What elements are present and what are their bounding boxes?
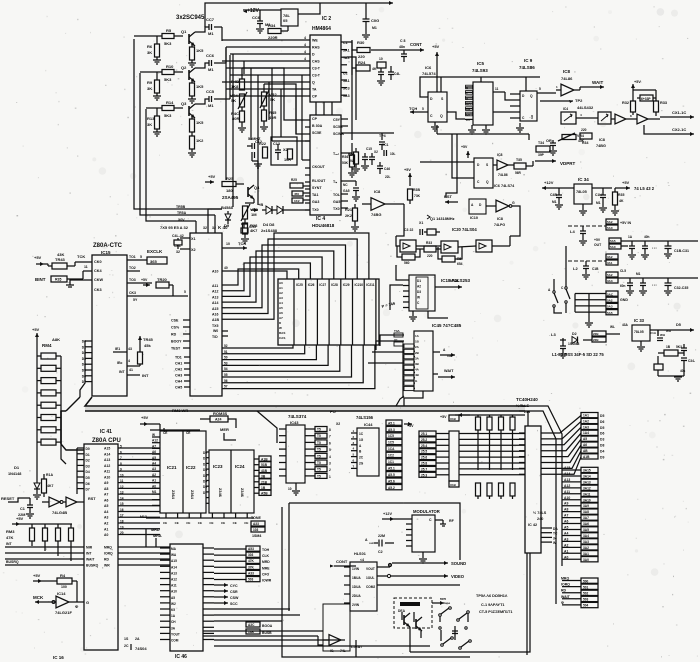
svg-text:43K: 43K bbox=[57, 252, 64, 257]
svg-text:A6: A6 bbox=[564, 520, 568, 524]
svg-text:IC15: IC15 bbox=[101, 250, 111, 255]
svg-text:Z80A CPU: Z80A CPU bbox=[92, 438, 121, 444]
svg-text:DV: DV bbox=[530, 115, 534, 119]
svg-text:R34: R34 bbox=[582, 141, 588, 145]
svg-text:IEo: IEo bbox=[117, 361, 122, 365]
IC IC41 Z80A CPU box bbox=[84, 444, 118, 650]
svg-text:T5: T5 bbox=[317, 428, 321, 432]
svg-text:TR43: TR43 bbox=[55, 257, 66, 262]
svg-text:D5: D5 bbox=[676, 323, 681, 327]
svg-text:5K3: 5K3 bbox=[164, 41, 172, 46]
svg-text:13: 13 bbox=[120, 491, 124, 495]
svg-text:IC8: IC8 bbox=[599, 138, 605, 142]
svg-text:1K2: 1K2 bbox=[196, 138, 204, 143]
svg-text:A11: A11 bbox=[564, 490, 570, 494]
label IC16 bbox=[53, 655, 64, 660]
svg-text:VOUT: VOUT bbox=[366, 567, 375, 571]
svg-text:VDPRT: VDPRT bbox=[560, 161, 576, 166]
svg-text:A5: A5 bbox=[583, 437, 587, 441]
svg-text:51B: 51B bbox=[261, 463, 268, 467]
svg-text:C1: C1 bbox=[20, 507, 25, 511]
svg-text:3K: 3K bbox=[147, 86, 152, 91]
IC40 left mid pins bbox=[171, 319, 190, 351]
svg-text:CX2-1C: CX2-1C bbox=[672, 127, 686, 132]
svg-text:+B: +B bbox=[258, 202, 263, 207]
capacitor C4 bbox=[206, 89, 215, 108]
resistor ROM3S A24 bbox=[172, 408, 236, 428]
svg-text:IC23: IC23 bbox=[213, 464, 223, 469]
svg-text:74LPG: 74LPG bbox=[494, 223, 505, 227]
svg-text:TX0: TX0 bbox=[312, 208, 319, 212]
label IC18 74LS253 bbox=[441, 278, 471, 283]
wire +5V tape bbox=[432, 597, 446, 605]
svg-text:Tₒᵤₜ: Tₒᵤₜ bbox=[333, 152, 339, 156]
trimmer VR3 1M bbox=[241, 204, 259, 221]
vertical mesh wires to IC4 bbox=[269, 68, 310, 160]
svg-text:CP: CP bbox=[312, 95, 318, 99]
resistor R34 top bbox=[268, 23, 288, 40]
IC18 right pins bbox=[435, 286, 448, 288]
wire RF bbox=[435, 519, 455, 526]
inverter IC14c MCK bbox=[33, 595, 75, 615]
RAM chip labels bbox=[296, 283, 375, 287]
svg-text:COM2: COM2 bbox=[366, 585, 375, 589]
CTC IEO pin bbox=[117, 359, 133, 366]
svg-text:G: G bbox=[512, 201, 515, 205]
svg-text:22M: 22M bbox=[378, 534, 385, 538]
svg-text:TA: TA bbox=[312, 88, 317, 92]
svg-text:3A11: 3A11 bbox=[583, 492, 591, 496]
svg-text:51: 51 bbox=[224, 350, 228, 354]
svg-text:C4B: C4B bbox=[550, 193, 557, 197]
svg-text:A33: A33 bbox=[248, 571, 254, 575]
capacitor C4 cluster bbox=[377, 57, 400, 85]
dashed line L4 bbox=[568, 225, 606, 227]
wire +5V right arrow bbox=[615, 180, 655, 191]
CTC right pin CK3 wire bbox=[127, 290, 188, 302]
connector col A boxes bbox=[562, 467, 598, 562]
svg-text:WAIT: WAIT bbox=[86, 557, 95, 561]
bus tap diagonal to ROM bbox=[257, 411, 277, 443]
svg-text:A14: A14 bbox=[104, 452, 110, 456]
resistor R10 bbox=[162, 64, 183, 82]
svg-text:2: 2 bbox=[329, 468, 331, 472]
svg-text:C1: C1 bbox=[466, 118, 470, 122]
modulator pins bbox=[406, 524, 412, 546]
svg-text:A2: A2 bbox=[104, 522, 108, 526]
svg-text:A3: A3 bbox=[279, 296, 283, 300]
svg-text:+5V: +5V bbox=[407, 424, 414, 428]
svg-text:AB: AB bbox=[583, 449, 588, 453]
capacitor C06 bbox=[362, 3, 379, 39]
svg-text:BOOY: BOOY bbox=[171, 340, 182, 344]
svg-text:CSR: CSR bbox=[230, 590, 238, 594]
label B4588 bbox=[221, 205, 234, 210]
svg-text:CE: CE bbox=[209, 521, 213, 525]
svg-text:TR5A: TR5A bbox=[177, 211, 187, 215]
svg-text:R9: R9 bbox=[147, 80, 153, 85]
svg-text:TR20: TR20 bbox=[157, 277, 168, 282]
svg-text:7X5 95 E5 A 32: 7X5 95 E5 A 32 bbox=[160, 225, 189, 230]
svg-text:4: 4 bbox=[304, 36, 306, 40]
svg-text:12: 12 bbox=[120, 485, 124, 489]
connector pair 3 bbox=[606, 254, 618, 265]
svg-text:1A: 1A bbox=[171, 614, 176, 618]
resistor R9 emitter bbox=[190, 80, 205, 96]
svg-text:R32: R32 bbox=[622, 101, 629, 105]
svg-text:A15: A15 bbox=[104, 447, 110, 451]
svg-text:L3: L3 bbox=[551, 332, 556, 337]
svg-text:1N4148: 1N4148 bbox=[8, 472, 21, 476]
resistor R11 emitter bbox=[190, 116, 205, 132]
svg-text:L4: L4 bbox=[570, 229, 575, 234]
svg-text:+5V: +5V bbox=[141, 278, 148, 282]
resistor R24 4K bbox=[352, 50, 377, 75]
inductor L3 row bbox=[551, 332, 567, 358]
svg-text:+5V: +5V bbox=[16, 516, 24, 521]
resistor R14 bbox=[162, 100, 183, 118]
cap row 2 bbox=[620, 272, 647, 295]
svg-text:180: 180 bbox=[226, 188, 233, 193]
svg-text:D3: D3 bbox=[86, 464, 90, 468]
svg-text:X2: X2 bbox=[374, 150, 378, 154]
svg-text:A1: A1 bbox=[564, 549, 568, 553]
svg-text:3A14: 3A14 bbox=[583, 474, 591, 478]
svg-text:T/D: T/D bbox=[212, 335, 218, 339]
connector quad GND bbox=[606, 291, 628, 315]
ground under R28 bbox=[241, 234, 249, 243]
wire Q4 collector bbox=[245, 199, 254, 203]
svg-text:504: 504 bbox=[583, 604, 589, 608]
svg-text:IC210: IC210 bbox=[355, 283, 364, 287]
svg-text:TD1: TD1 bbox=[175, 356, 182, 360]
svg-text:WAIT: WAIT bbox=[592, 80, 603, 85]
svg-text:41B: 41B bbox=[261, 469, 268, 473]
svg-text:A5: A5 bbox=[279, 306, 283, 310]
svg-text:74L86: 74L86 bbox=[498, 173, 508, 177]
svg-text:A33: A33 bbox=[253, 522, 259, 526]
svg-text:C0: C0 bbox=[466, 113, 470, 117]
svg-text:5A2: 5A2 bbox=[607, 273, 613, 277]
svg-text:VIDEO: VIDEO bbox=[451, 574, 465, 579]
wire top rail to regulator bbox=[298, 3, 320, 14]
svg-text:+5V IN: +5V IN bbox=[620, 221, 631, 225]
svg-text:BOOA: BOOA bbox=[262, 624, 273, 628]
CTC right pin TO3 R20b bbox=[127, 278, 152, 287]
svg-text:A13: A13 bbox=[212, 295, 218, 299]
svg-text:3A5: 3A5 bbox=[583, 528, 589, 532]
svg-text:3A8: 3A8 bbox=[583, 510, 589, 514]
wire left loop verticals (video RGB returns) bbox=[134, 39, 222, 221]
svg-text:EXCLK: EXCLK bbox=[147, 249, 163, 254]
bottom wires long bbox=[203, 631, 323, 645]
wire sound route long bbox=[377, 584, 460, 586]
svg-text:R34: R34 bbox=[268, 23, 276, 28]
svg-text:CC6: CC6 bbox=[206, 53, 215, 58]
svg-text:48n: 48n bbox=[399, 45, 405, 49]
svg-text:25.1: 25.1 bbox=[421, 432, 427, 436]
svg-text:GA3: GA3 bbox=[312, 200, 319, 204]
svg-text:3A10: 3A10 bbox=[583, 498, 591, 502]
tape caps bbox=[441, 626, 458, 641]
svg-text:K 40: K 40 bbox=[218, 225, 228, 230]
svg-text:D5: D5 bbox=[86, 476, 90, 480]
svg-text:+5V: +5V bbox=[634, 80, 641, 84]
svg-text:A2: A2 bbox=[417, 285, 421, 289]
cap row 2 dots bbox=[652, 278, 688, 295]
svg-text:74LS156: 74LS156 bbox=[356, 415, 374, 420]
svg-text:M1: M1 bbox=[552, 200, 557, 204]
svg-text:A6: A6 bbox=[583, 443, 587, 447]
svg-text:+12V: +12V bbox=[247, 8, 259, 14]
wire loop verticals vdprt bbox=[446, 134, 474, 198]
svg-text:25.6: 25.6 bbox=[421, 456, 427, 460]
svg-text:2346: 2346 bbox=[218, 488, 223, 498]
label HLS01 bbox=[354, 552, 366, 562]
label IC6 74LS74b bbox=[494, 184, 515, 188]
svg-text:4K: 4K bbox=[619, 199, 624, 203]
svg-text:M1: M1 bbox=[208, 103, 214, 108]
svg-text:74S04: 74S04 bbox=[135, 646, 147, 651]
svg-text:1S: 1S bbox=[124, 637, 129, 641]
wires trimmers to IC4 bbox=[242, 68, 305, 134]
IC40 X2 pin bbox=[174, 244, 196, 254]
svg-text:502: 502 bbox=[583, 592, 589, 596]
resistor R5 bbox=[162, 28, 183, 46]
ground under Q3 emitter bbox=[188, 153, 196, 157]
svg-text:TR5B: TR5B bbox=[176, 205, 186, 209]
svg-text:GND: GND bbox=[620, 298, 628, 302]
svg-text:6+33P: 6+33P bbox=[641, 97, 651, 101]
svg-text:5K: 5K bbox=[231, 98, 236, 103]
bus right end bends bbox=[519, 406, 562, 604]
svg-text:A24: A24 bbox=[215, 418, 221, 422]
svg-text:CC7: CC7 bbox=[206, 17, 215, 22]
svg-text:MA: MA bbox=[171, 547, 177, 551]
svg-text:T5: T5 bbox=[317, 454, 321, 458]
svg-text:47K: 47K bbox=[248, 559, 255, 563]
svg-text:INT: INT bbox=[119, 370, 126, 374]
CPU control pins right bbox=[104, 545, 170, 567]
svg-text:22L: 22L bbox=[385, 175, 391, 179]
svg-text:R1A: R1A bbox=[46, 473, 53, 477]
wire +12V rail bbox=[243, 9, 281, 11]
label IC23 bbox=[213, 464, 223, 498]
sound amp pins left bbox=[344, 567, 361, 607]
svg-text:WH: WH bbox=[660, 333, 665, 337]
svg-text:5A3: 5A3 bbox=[343, 94, 350, 98]
svg-text:78L05: 78L05 bbox=[634, 330, 644, 334]
svg-text:1A3: 1A3 bbox=[583, 425, 589, 429]
svg-text:CSE: CSE bbox=[171, 319, 179, 323]
svg-text:C1: C1 bbox=[343, 41, 348, 45]
svg-text:560: 560 bbox=[404, 261, 410, 265]
IC IC42 box bbox=[525, 426, 541, 553]
svg-text:CH: CH bbox=[171, 620, 176, 624]
buffer IC8 mid2 bbox=[486, 200, 515, 227]
svg-text:out: out bbox=[447, 354, 452, 358]
connector boxes right of IC46 bbox=[246, 546, 260, 582]
svg-text:450: 450 bbox=[294, 192, 299, 196]
wire +5V cx bbox=[631, 80, 656, 96]
svg-text:C32-C35: C32-C35 bbox=[674, 286, 688, 290]
svg-text:25.5: 25.5 bbox=[421, 450, 427, 454]
wires TR5B column bbox=[176, 205, 187, 222]
5VOUT rail bbox=[621, 241, 698, 246]
capacitor C15 bbox=[275, 144, 281, 160]
svg-text:A7: A7 bbox=[152, 444, 156, 448]
svg-text:MRD: MRD bbox=[151, 528, 160, 532]
svg-text:5: 5 bbox=[539, 87, 541, 91]
svg-text:CKW: CKW bbox=[94, 278, 103, 282]
transistor Q3 bbox=[181, 101, 195, 118]
svg-text:MRE: MRE bbox=[262, 566, 270, 570]
svg-text:D1: D1 bbox=[417, 279, 421, 283]
svg-text:R3B: R3B bbox=[413, 188, 420, 192]
svg-text:100: 100 bbox=[61, 585, 67, 589]
IC IC10 box mid bbox=[469, 199, 486, 220]
svg-text:A9: A9 bbox=[104, 481, 108, 485]
svg-text:C0G: C0G bbox=[371, 18, 379, 23]
label RESET bbox=[1, 496, 15, 501]
svg-text:CE: CE bbox=[244, 521, 248, 525]
crystal X1 sym bbox=[420, 229, 440, 235]
svg-text:40R: 40R bbox=[269, 115, 276, 120]
RAM first chip pin labels bbox=[279, 281, 285, 340]
svg-text:IC28: IC28 bbox=[331, 283, 338, 287]
wire Q1 top rail bbox=[205, 1, 393, 27]
connector col D labels bbox=[600, 414, 604, 459]
IC46 long wires right bbox=[214, 609, 430, 646]
svg-text:5A0: 5A0 bbox=[607, 226, 613, 230]
svg-text:L2: L2 bbox=[573, 266, 578, 271]
svg-text:240: 240 bbox=[537, 517, 543, 521]
svg-text:5C3: 5C3 bbox=[343, 87, 350, 91]
osc caps gnd bbox=[0, 0, 1, 1]
svg-text:10: 10 bbox=[379, 57, 383, 61]
label 5xMHZ bbox=[248, 137, 261, 141]
svg-text:D7: D7 bbox=[86, 488, 90, 492]
svg-text:5A3: 5A3 bbox=[607, 305, 613, 309]
svg-text:220: 220 bbox=[581, 128, 587, 132]
connector col D boxes bbox=[581, 413, 598, 460]
wire +5V rail RM4 bbox=[32, 327, 40, 478]
svg-text:TA1: TA1 bbox=[312, 193, 319, 197]
svg-text:NMI: NMI bbox=[86, 545, 92, 549]
wire video route bbox=[0, 0, 1, 1]
svg-text:A12: A12 bbox=[152, 439, 158, 443]
wires pack to resistors bbox=[459, 434, 525, 475]
svg-text:47K: 47K bbox=[6, 535, 13, 540]
svg-text:20: 20 bbox=[120, 531, 124, 535]
wire osc loop bbox=[396, 204, 520, 236]
svg-text:CAS: CAS bbox=[312, 60, 320, 64]
boxes TONE bbox=[251, 516, 265, 538]
svg-text:A4: A4 bbox=[564, 531, 568, 535]
svg-text:1VIN: 1VIN bbox=[352, 567, 360, 571]
svg-text:A2: A2 bbox=[279, 291, 283, 295]
svg-text:BUSRQ: BUSRQ bbox=[86, 563, 99, 567]
resistor R4 100 bbox=[33, 573, 77, 602]
diode D1 bbox=[8, 465, 41, 499]
svg-text:INT: INT bbox=[142, 373, 149, 378]
label IC45 bbox=[432, 323, 462, 328]
svg-text:A16: A16 bbox=[212, 313, 218, 317]
capacitor C2 bbox=[378, 534, 394, 554]
svg-text:3A13: 3A13 bbox=[583, 480, 591, 484]
label IC5 bbox=[477, 61, 485, 66]
svg-text:R5: R5 bbox=[166, 28, 172, 33]
pair4 rail bbox=[618, 269, 698, 278]
svg-text:IC14: IC14 bbox=[57, 591, 66, 596]
svg-text:D2: D2 bbox=[86, 459, 90, 463]
svg-text:T5: T5 bbox=[317, 448, 321, 452]
svg-text:3A1: 3A1 bbox=[583, 552, 589, 556]
IC45 bottom wire bbox=[404, 391, 423, 406]
resistor R34b bbox=[580, 128, 592, 145]
svg-text:IC25: IC25 bbox=[296, 283, 303, 287]
svg-text:4: 4 bbox=[304, 57, 306, 61]
svg-text:+5V: +5V bbox=[622, 180, 630, 185]
svg-text:TC: TC bbox=[553, 532, 558, 536]
svg-text:T5: T5 bbox=[317, 434, 321, 438]
wire CONT bottom bbox=[330, 559, 356, 568]
resistor R21 2K2 bbox=[345, 204, 359, 231]
svg-text:X1B: X1B bbox=[450, 417, 457, 421]
label IC20 74LS04 bbox=[452, 227, 477, 232]
FF top loop rail bbox=[420, 77, 540, 97]
svg-text:T34: T34 bbox=[538, 141, 544, 145]
svg-text:3A2: 3A2 bbox=[583, 546, 589, 550]
svg-text:7: 7 bbox=[329, 435, 331, 439]
IC43 left pins bbox=[279, 429, 286, 476]
wire +12V modulator bbox=[382, 512, 412, 521]
ROM right pin labels bbox=[261, 458, 268, 496]
IC45 Aout arrow bbox=[433, 348, 455, 358]
svg-text:L1-L3 DSS 34F-5 SD 22 75: L1-L3 DSS 34F-5 SD 22 75 bbox=[552, 352, 604, 357]
svg-text:1C5: 1C5 bbox=[388, 434, 394, 438]
small boxes under osc bbox=[290, 178, 310, 203]
RAM bottom pin numbers bbox=[224, 344, 228, 389]
svg-text:D8: D8 bbox=[600, 444, 604, 448]
svg-text:CL5: CL5 bbox=[620, 269, 626, 273]
IC2 right vertical wires bbox=[347, 42, 356, 140]
ground under R6 bbox=[153, 60, 161, 64]
svg-text:WL: WL bbox=[610, 325, 615, 329]
svg-text:A53: A53 bbox=[248, 547, 254, 551]
svg-text:A2: A2 bbox=[564, 543, 568, 547]
svg-text:A8: A8 bbox=[104, 487, 108, 491]
svg-text:MCK: MCK bbox=[33, 595, 44, 600]
svg-text:Q1: Q1 bbox=[181, 29, 187, 34]
IC IC43 box bbox=[286, 425, 305, 483]
svg-text:3K: 3K bbox=[147, 122, 152, 127]
opto box1 bbox=[561, 107, 576, 124]
svg-text:103: 103 bbox=[253, 528, 259, 532]
svg-text:CE: CE bbox=[221, 521, 225, 525]
svg-text:D4: D4 bbox=[600, 449, 604, 453]
buffer IC8 mid bbox=[362, 189, 404, 217]
capacitors NC GA5 bbox=[343, 181, 360, 201]
IC IC9 box bbox=[520, 91, 537, 121]
svg-text:1A: 1A bbox=[628, 235, 633, 239]
svg-text:CX1-1C: CX1-1C bbox=[672, 110, 686, 115]
svg-text:X1: X1 bbox=[191, 237, 196, 241]
svg-text:2A: 2A bbox=[135, 637, 140, 641]
IC40 left low pins bbox=[175, 356, 190, 390]
label IC15 bbox=[101, 250, 111, 255]
misc mid column parts bbox=[342, 143, 356, 177]
